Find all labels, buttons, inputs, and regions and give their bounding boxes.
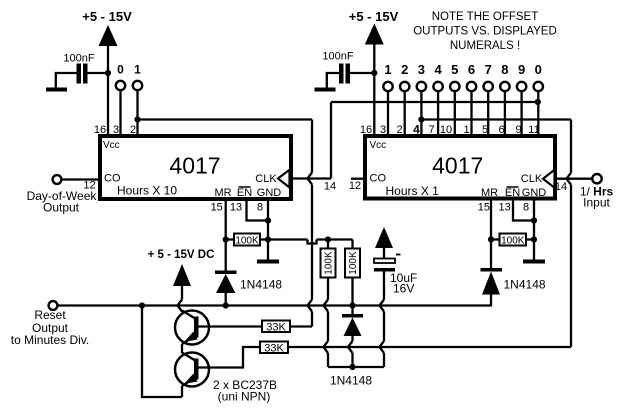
node dot reset/left rail [139, 302, 145, 308]
IC2 pin12 CO stub [351, 178, 365, 180]
capacitor 100nF right label [322, 51, 353, 63]
node dot D3 bottom [349, 364, 355, 370]
svg-text:+5 - 15V: +5 - 15V [349, 9, 399, 24]
terminal circle output 1 [133, 81, 142, 90]
IC2 Hours X 1 label [386, 184, 440, 198]
terminal circle 1/Hrs input [592, 174, 601, 183]
svg-text:1: 1 [134, 63, 141, 77]
wire R2 bottom lead [351, 278, 353, 306]
svg-text:13: 13 [230, 202, 242, 214]
wire pin3 IC1 [119, 90, 121, 136]
svg-text:12: 12 [349, 180, 361, 192]
svg-text:NUMERALS !: NUMERALS ! [450, 40, 520, 52]
IC1 MR label [214, 187, 231, 199]
label output 1 [134, 63, 141, 77]
node dot 100K1/GND1 [265, 236, 271, 242]
node junction dot power/100nF right [371, 70, 377, 76]
transistor Q1 BC237B [175, 311, 262, 345]
node dot reset/D1 [223, 302, 229, 308]
label output 0 [117, 63, 124, 77]
svg-text:4017: 4017 [432, 153, 483, 179]
wire IC1 EN pin13 [247, 199, 269, 221]
IC2 pin labels top [360, 123, 540, 137]
svg-text:MR: MR [481, 187, 498, 199]
IC2 CO label [370, 173, 387, 185]
wire output1 horizontal to right [138, 118, 313, 120]
op IC1 4017 box [100, 136, 291, 199]
IC2 Vcc label [370, 140, 387, 151]
wire arrow to cap [383, 246, 385, 259]
wire IC1 CLK pin14 [291, 102, 538, 179]
svg-text:6: 6 [468, 62, 475, 77]
wire R1 bottom lead with jogs [324, 278, 329, 368]
terminal circle reset output [49, 301, 58, 310]
IC2 bottom pin labels [478, 202, 529, 214]
svg-text:1: 1 [384, 62, 391, 77]
svg-text:100K: 100K [235, 236, 259, 247]
IC1 pin12 CO stub [62, 178, 101, 180]
resistor 100K IC2 box [500, 234, 527, 247]
IC1 pin label 2 [130, 124, 136, 136]
terminal circles outputs IC2 [383, 82, 543, 91]
svg-text:8: 8 [501, 62, 508, 77]
svg-text:8: 8 [523, 202, 529, 214]
op IC2 4017 box [365, 136, 555, 199]
IC1 Vcc label [103, 140, 120, 151]
label 1N4148 D2 [504, 278, 546, 292]
IC1 pin label 16 [94, 124, 106, 136]
wire bottom rail R1-cap [328, 366, 384, 368]
labels 1..0 outputs IC2 [384, 62, 542, 77]
wire vertical x312 with crossover jogs [308, 120, 313, 327]
power arrow symbol left [99, 25, 118, 46]
svg-text:0: 0 [117, 63, 124, 77]
svg-text:GND: GND [522, 187, 547, 199]
IC2 pin label 12 [349, 180, 361, 192]
label Day-of-Week [27, 189, 98, 203]
svg-text:3: 3 [418, 62, 425, 77]
svg-text:33K: 33K [266, 322, 286, 334]
svg-text:14: 14 [555, 181, 567, 193]
ground symbol C2 [315, 88, 336, 92]
wire vertical x571 with jog at CLK2 [567, 120, 572, 348]
svg-text:Vcc: Vcc [370, 140, 387, 151]
node dot pin4 branch [418, 116, 424, 122]
IC2 pin label 14 [555, 181, 567, 193]
label 1/ Hrs [580, 185, 614, 199]
label 1N4148 D3 [330, 374, 372, 388]
resistor R1 100K vertical [321, 249, 336, 278]
wire pin4 branch right [421, 118, 571, 120]
node dot reset/R2/D3 [349, 302, 355, 308]
IC2 CLK triangle [543, 170, 555, 188]
wire horizontal y239.5 to R1 R2 with dip at x312 [268, 240, 353, 249]
wire C2 right to power [350, 72, 374, 74]
svg-text:to Minutes Div.: to Minutes Div. [11, 333, 89, 347]
IC1 pin label 12 [83, 180, 95, 192]
terminal circle output 0 [116, 81, 125, 90]
svg-text:+ 5 - 15V DC: + 5 - 15V DC [148, 249, 215, 261]
svg-text:OUTPUTS VS. DISPLAYED: OUTPUTS VS. DISPLAYED [413, 26, 557, 38]
wire reset horizontal line [57, 304, 491, 306]
IC2 CLK label [521, 173, 543, 185]
capacitor C3 10uF plates [374, 259, 395, 272]
svg-text:16V: 16V [393, 282, 414, 296]
IC1 EN label with overline [237, 187, 252, 199]
node dot clk to out0 pin11 [535, 99, 541, 105]
power arrow symbol cap [375, 227, 393, 248]
svg-text:100nF: 100nF [322, 51, 353, 63]
power label DC middle left [148, 249, 215, 261]
svg-text:Hours X 10: Hours X 10 [117, 184, 177, 198]
wire C1 right to power [88, 72, 109, 74]
node dot output1 branch [134, 116, 140, 122]
IC1 big label 4017 [169, 153, 220, 179]
svg-text:Hours X 1: Hours X 1 [386, 184, 440, 198]
label 16V [393, 282, 414, 296]
svg-text:Output: Output [43, 201, 80, 215]
wire Vcc IC2 pin16 [373, 43, 375, 137]
resistor R2 100K vertical [345, 249, 360, 278]
power V+ label left [82, 9, 132, 24]
svg-text:+5 - 15V: +5 - 15V [82, 9, 132, 24]
wire cap bottom lead with jogs [380, 272, 385, 368]
label minus [396, 254, 401, 256]
ground symbol IC1 [257, 260, 279, 264]
label (uni NPN) [218, 390, 271, 404]
label to Minutes Div. [11, 333, 89, 347]
transistor Q2 BC237B [175, 347, 260, 387]
wire C2 left to ground [327, 73, 339, 88]
wire Vcc IC1 pin16 [107, 44, 109, 136]
IC1 CLK label [255, 173, 277, 185]
wire D1 bottom [225, 293, 227, 306]
IC2 GND label [522, 187, 547, 199]
wire IC1 GND pin8 [267, 199, 269, 260]
wire 100K1 leads [226, 238, 268, 240]
wire Q1 emitter to Q2 [181, 344, 183, 353]
svg-text:15: 15 [211, 202, 223, 214]
svg-text:1N4148: 1N4148 [240, 278, 282, 292]
svg-text:0: 0 [535, 62, 542, 77]
svg-text:Vcc: Vcc [103, 140, 120, 151]
wire IC1 MR pin15 [225, 199, 227, 271]
wire Q2 emitter down [181, 386, 183, 397]
label Reset [34, 308, 66, 322]
capacitor C2 100nF plates [339, 64, 350, 84]
label Output [32, 321, 69, 335]
label 1N4148 D1 [240, 278, 282, 292]
terminal circle day-of-week [53, 175, 62, 184]
label 2 x BC237B [213, 378, 277, 392]
svg-text:EN: EN [505, 187, 520, 199]
diode D1 1N4148 [215, 271, 237, 294]
svg-text:4: 4 [434, 62, 442, 77]
svg-text:CLK: CLK [521, 173, 543, 185]
wire x312 corner to 33K [290, 325, 312, 327]
power arrow symbol Q1 [173, 264, 191, 286]
resistor 100K IC1 box [234, 234, 260, 247]
wire 100K2 leads [491, 238, 534, 240]
svg-text:EN: EN [237, 187, 252, 199]
IC1 pin label 14 [324, 181, 336, 193]
wire power to Q1 collector with jog [178, 283, 183, 312]
node dot EN1/GND1 [265, 217, 271, 223]
wire IC2 GND pin8 [533, 199, 535, 261]
svg-text:100K: 100K [501, 236, 525, 247]
node dot MR1/100K [223, 236, 229, 242]
diode D2 1N4148 right [481, 268, 503, 307]
wire C1 left to ground [56, 73, 77, 88]
svg-text:8: 8 [257, 202, 263, 214]
wire 33K lower to right rail with jogs [288, 346, 571, 348]
svg-text:4017: 4017 [169, 153, 220, 179]
resistor 33K upper [262, 321, 290, 334]
wire pin2 IC1 [136, 90, 138, 136]
IC1 bottom pin labels [211, 202, 263, 214]
IC1 CO label [104, 173, 121, 185]
svg-text:(uni NPN): (uni NPN) [218, 390, 271, 404]
capacitor C1 100nF plates [77, 64, 88, 84]
svg-text:13: 13 [498, 202, 510, 214]
svg-text:100K: 100K [324, 251, 335, 275]
svg-text:100K: 100K [348, 251, 359, 275]
node dot EN2/GND2 [531, 217, 537, 223]
node dot 100K2/GND2 [531, 236, 537, 242]
IC2 big label 4017 [432, 153, 483, 179]
IC1 Hours X 10 label [117, 184, 177, 198]
IC1 CLK triangle [278, 170, 290, 188]
svg-text:MR: MR [214, 187, 231, 199]
diode D3 1N4148 middle [342, 306, 363, 368]
power V+ label middle [349, 9, 399, 24]
node dot MR2/100K [488, 236, 494, 242]
svg-text:2: 2 [401, 62, 408, 77]
svg-text:Reset: Reset [34, 308, 66, 322]
svg-text:CLK: CLK [255, 173, 277, 185]
svg-text:5: 5 [451, 62, 458, 77]
svg-text:15: 15 [478, 202, 490, 214]
svg-text:9: 9 [518, 62, 525, 77]
svg-text:7: 7 [485, 62, 492, 77]
IC1 GND label [257, 187, 282, 199]
svg-text:NOTE THE OFFSET: NOTE THE OFFSET [432, 11, 539, 23]
capacitor 100nF left label [63, 53, 94, 65]
note text [413, 11, 557, 52]
label Output [43, 201, 80, 215]
node junction dot power/100nF left [105, 70, 111, 76]
resistor 33K lower [260, 342, 288, 355]
ground symbol C1 [46, 88, 67, 92]
wire IC2 MR pin15 [490, 199, 492, 269]
IC1 pin label 3 [113, 124, 119, 136]
wire R1 top lead [327, 240, 329, 249]
wire IC2 EN pin13 [513, 199, 534, 221]
wire left rail down [142, 306, 182, 398]
power arrow symbol middle [365, 24, 384, 45]
label Input [583, 196, 610, 210]
IC2 EN label with overline [505, 187, 520, 199]
wire IC2 CLK pin14 to input [555, 178, 592, 180]
svg-text:Input: Input [583, 196, 610, 210]
svg-text:1N4148: 1N4148 [504, 278, 546, 292]
svg-text:100nF: 100nF [63, 53, 94, 65]
node dot R1 top [325, 236, 331, 242]
svg-text:33K: 33K [264, 343, 284, 355]
svg-text:CO: CO [370, 173, 387, 185]
wires output leads IC2 [388, 91, 538, 136]
svg-text:1N4148: 1N4148 [330, 374, 372, 388]
svg-text:GND: GND [257, 187, 282, 199]
label 10uF [390, 271, 417, 285]
svg-text:14: 14 [324, 181, 336, 193]
IC2 MR label [481, 187, 498, 199]
ground symbol IC2 [523, 260, 545, 264]
